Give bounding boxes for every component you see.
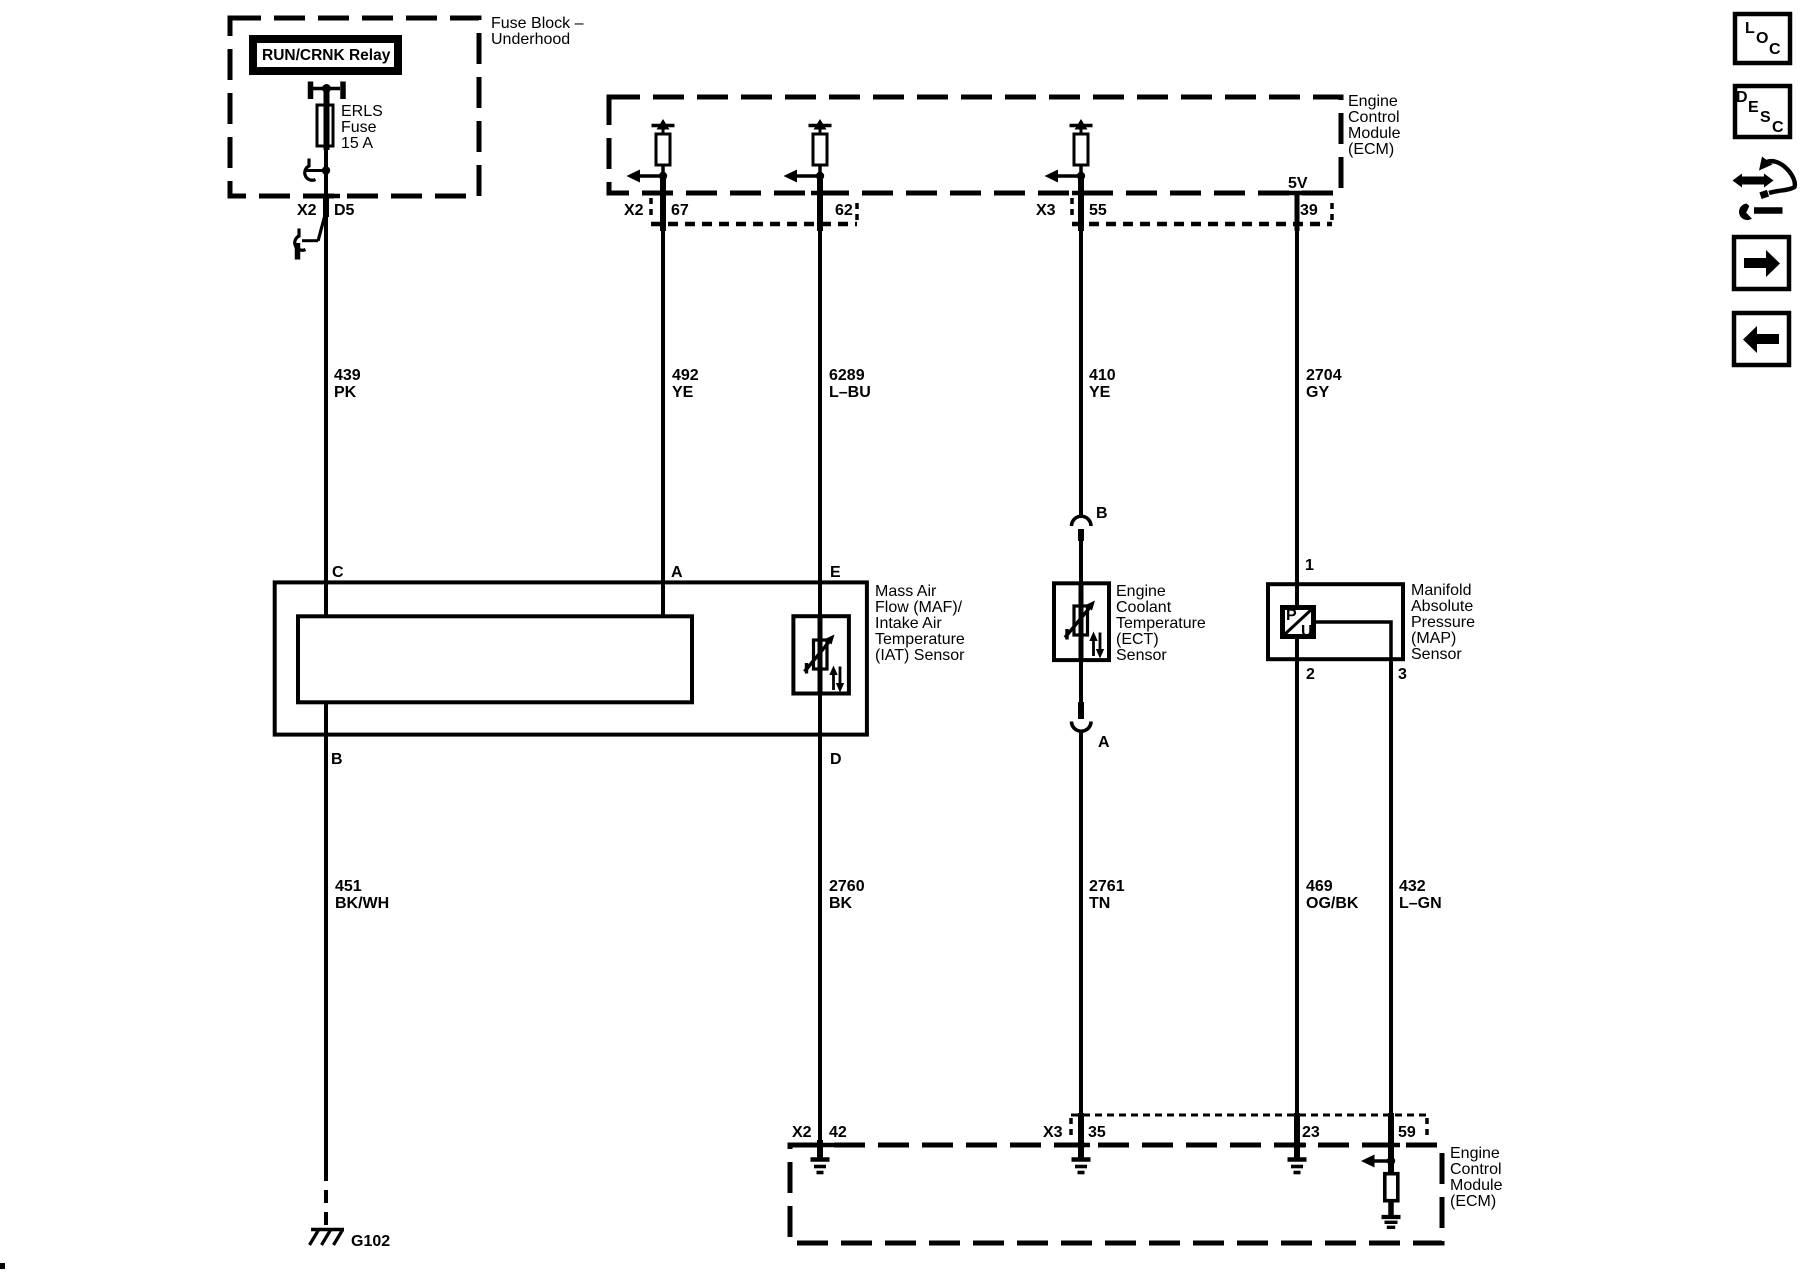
- svg-text:492: 492: [672, 367, 699, 384]
- wire 5V pin 39: [1295, 193, 1300, 231]
- ground at resistor: [1382, 1217, 1401, 1227]
- svg-text:O: O: [1756, 30, 1768, 47]
- svg-text:D: D: [1736, 89, 1748, 106]
- svg-text:62: 62: [835, 202, 853, 219]
- ground at pin 23: [1288, 1160, 1307, 1173]
- connector X3 row (pins 55 39): [1070, 198, 1074, 220]
- ECM driver element pin 67: [627, 119, 675, 231]
- relay contact pins: [311, 82, 344, 100]
- pin 59 wire into ECM: [1388, 1113, 1394, 1174]
- svg-text:55: 55: [1089, 202, 1107, 219]
- svg-text:C: C: [1769, 41, 1781, 58]
- svg-text:OG/BK: OG/BK: [1306, 895, 1359, 912]
- label Engine Coolant Temperature (ECT) Sensor: [1116, 583, 1206, 664]
- wire 439 PK down to MAF: [324, 196, 328, 616]
- icon wiring nav (double arrow, loop, wrench): [1733, 157, 1795, 221]
- svg-text:GY: GY: [1306, 384, 1329, 401]
- svg-text:Coolant: Coolant: [1116, 599, 1172, 616]
- wire below ECT: [1079, 658, 1083, 702]
- relay K: RUN/CRNK Relay: [253, 39, 398, 71]
- svg-text:L–BU: L–BU: [829, 384, 871, 401]
- label Mass Air Flow (MAF)/ Intake Air Temperature (IAT) Sensor: [875, 583, 965, 664]
- svg-text:PK: PK: [334, 384, 357, 401]
- svg-text:59: 59: [1398, 1124, 1416, 1141]
- connector hook below fuse block: [295, 229, 306, 251]
- letter U: [1301, 623, 1313, 640]
- svg-text:X2: X2: [624, 202, 644, 219]
- label G102: [351, 1233, 390, 1250]
- svg-text:2760: 2760: [829, 878, 865, 895]
- label Engine Control Module (ECM) bottom: [1450, 1145, 1503, 1210]
- wire D: IAT to ECM pin 42: [818, 692, 822, 1146]
- svg-text:X2: X2: [792, 1124, 812, 1141]
- svg-text:B: B: [331, 751, 343, 768]
- svg-text:Temperature: Temperature: [875, 631, 965, 648]
- wire 432 L-GN to ECM pin 59: [1389, 657, 1393, 1146]
- wire B: MAF to G102: [324, 701, 328, 1168]
- fuse F: ERLS 15A: [317, 105, 333, 146]
- svg-text:3: 3: [1398, 666, 1407, 683]
- label Manifold Absolute Pressure (MAP) Sensor: [1411, 582, 1475, 663]
- pin 1 label: [1305, 557, 1314, 574]
- svg-text:432: 432: [1399, 878, 1426, 895]
- pin 35 wire into ECM: [1078, 1113, 1084, 1159]
- wire crossing ticks: [318, 193, 1401, 1145]
- 5V supply label: [1288, 175, 1308, 192]
- svg-text:BK: BK: [829, 895, 853, 912]
- svg-text:15 A: 15 A: [341, 135, 373, 152]
- wire into P/U: [1295, 584, 1299, 608]
- svg-text:TN: TN: [1089, 895, 1110, 912]
- svg-text:Flow (MAF)/: Flow (MAF)/: [875, 599, 963, 616]
- chassis ground G102: [310, 1230, 345, 1246]
- icon back arrow button: [1734, 313, 1789, 365]
- svg-text:Temperature: Temperature: [1116, 615, 1206, 632]
- pin 23 wire into ECM: [1294, 1113, 1300, 1159]
- svg-text:E: E: [1748, 99, 1759, 116]
- svg-text:(ECM): (ECM): [1450, 1193, 1496, 1210]
- svg-text:S: S: [1760, 109, 1771, 126]
- P/U diagonal: [1284, 609, 1312, 635]
- IAT thermistor: [805, 616, 845, 694]
- pin labels X2 42 X3 35 23 59: [792, 1124, 1416, 1141]
- svg-text:35: 35: [1088, 1124, 1106, 1141]
- svg-text:C: C: [1772, 119, 1784, 136]
- svg-text:(ECT): (ECT): [1116, 631, 1159, 648]
- internal line to pin 3: [1316, 622, 1391, 659]
- ECT thermistor: [1065, 583, 1104, 660]
- svg-text:23: 23: [1302, 1124, 1320, 1141]
- svg-text:RUN/CRNK Relay: RUN/CRNK Relay: [262, 47, 391, 64]
- svg-text:2: 2: [1306, 666, 1315, 683]
- pin C label: [332, 564, 344, 581]
- label A: [1098, 734, 1110, 751]
- svg-text:Module: Module: [1450, 1177, 1503, 1194]
- MAF inner box: [298, 616, 692, 702]
- svg-text:410: 410: [1089, 367, 1116, 384]
- svg-text:YE: YE: [1089, 384, 1111, 401]
- fuse block - underhood box: [230, 18, 479, 196]
- svg-text:5V: 5V: [1288, 175, 1308, 192]
- svg-text:451: 451: [335, 878, 362, 895]
- svg-text:D: D: [830, 751, 842, 768]
- connector B female half: [1072, 516, 1092, 526]
- svg-text:B: B: [1096, 505, 1108, 522]
- svg-text:Manifold: Manifold: [1411, 582, 1471, 599]
- svg-text:Absolute: Absolute: [1411, 598, 1473, 615]
- svg-text:(ECM): (ECM): [1348, 141, 1394, 158]
- wire dashed to ground: [324, 1168, 328, 1229]
- pin 3 label: [1398, 666, 1407, 683]
- connector A male pin: [1078, 702, 1084, 719]
- label 439 PK: [334, 367, 361, 401]
- wire 492 YE: [661, 228, 665, 616]
- MAP P/U transducer square: [1283, 608, 1314, 637]
- svg-text:(MAP): (MAP): [1411, 630, 1456, 647]
- junction dot: [322, 166, 330, 174]
- svg-text:42: 42: [829, 1124, 847, 1141]
- svg-text:Fuse: Fuse: [341, 119, 377, 136]
- svg-text:L: L: [1745, 20, 1755, 37]
- wire out of P/U to pin 2: [1295, 637, 1299, 659]
- wire stub to hook: [304, 169, 326, 172]
- icon DESC button: [1735, 86, 1790, 137]
- svg-text:P: P: [1286, 607, 1297, 624]
- pin D label: [830, 751, 842, 768]
- ground at pin 42: [811, 1160, 830, 1173]
- pin A label: [671, 564, 683, 581]
- pin 42 wire into ECM: [817, 1140, 823, 1159]
- svg-text:Engine: Engine: [1116, 583, 1166, 600]
- label Fuse Block - Underhood: [491, 15, 584, 48]
- label 451 BK/WH: [335, 878, 389, 912]
- svg-text:39: 39: [1300, 202, 1318, 219]
- svg-text:A: A: [1098, 734, 1110, 751]
- svg-text:Mass Air: Mass Air: [875, 583, 937, 600]
- svg-text:YE: YE: [672, 384, 694, 401]
- ECT sensor box: [1054, 583, 1109, 660]
- wire 410 YE: [1079, 228, 1083, 517]
- svg-text:Sensor: Sensor: [1116, 647, 1167, 664]
- svg-text:Control: Control: [1348, 109, 1400, 126]
- svg-text:Module: Module: [1348, 125, 1401, 142]
- icon forward arrow button: [1734, 237, 1789, 289]
- svg-text:Pressure: Pressure: [1411, 614, 1475, 631]
- connector X2 row (pins 67 62): [649, 198, 653, 220]
- ECM top box: [609, 97, 1341, 193]
- connector X3 row (pins 35 23 59): [1071, 1114, 1427, 1117]
- svg-text:C: C: [332, 564, 344, 581]
- wire to ground: [1388, 1200, 1394, 1216]
- svg-text:6289: 6289: [829, 367, 865, 384]
- svg-text:439: 439: [334, 367, 361, 384]
- svg-text:Sensor: Sensor: [1411, 646, 1462, 663]
- svg-text:469: 469: [1306, 878, 1333, 895]
- svg-text:BK/WH: BK/WH: [335, 895, 389, 912]
- wire 469 OG/BK to ECM pin 23: [1295, 657, 1299, 1146]
- wire 2761 TN to ECM pin 35: [1079, 731, 1083, 1146]
- svg-text:G102: G102: [351, 1233, 390, 1250]
- ECM driver element pin 62: [784, 119, 832, 231]
- pin 2 label: [1306, 666, 1315, 683]
- svg-text:Fuse Block –: Fuse Block –: [491, 15, 584, 32]
- svg-text:(IAT) Sensor: (IAT) Sensor: [875, 647, 965, 664]
- svg-text:E: E: [830, 564, 841, 581]
- ground at pin 35: [1072, 1160, 1091, 1173]
- wire diagonal to connector: [318, 215, 325, 241]
- label B: [1096, 505, 1108, 522]
- svg-text:1: 1: [1305, 557, 1314, 574]
- wire 2704 GY: [1295, 228, 1299, 584]
- svg-text:Engine: Engine: [1348, 93, 1398, 110]
- resistor in ECM: [1385, 1174, 1398, 1201]
- svg-text:D5: D5: [334, 202, 355, 219]
- wire from relay through fuse: [324, 89, 330, 151]
- MAF/IAT sensor outer box: [275, 582, 867, 734]
- wire to ECT: [1079, 541, 1083, 585]
- svg-text:Engine: Engine: [1450, 1145, 1500, 1162]
- junction dot: [322, 84, 331, 93]
- connector A female half: [1072, 722, 1092, 732]
- connector pin bar: [295, 243, 301, 260]
- pin E label: [830, 564, 841, 581]
- MAP sensor box: [1268, 584, 1403, 659]
- label 2760 BK: [829, 878, 865, 912]
- svg-text:ERLS: ERLS: [341, 103, 383, 120]
- svg-text:X3: X3: [1036, 202, 1056, 219]
- svg-text:Intake Air: Intake Air: [875, 615, 942, 632]
- svg-text:67: 67: [671, 202, 689, 219]
- letter P: [1286, 607, 1297, 624]
- svg-text:U: U: [1301, 623, 1313, 640]
- arrow out at pin 59: [1374, 1159, 1391, 1163]
- wire below fuse: [324, 146, 328, 196]
- ECM bottom box: [790, 1145, 1442, 1243]
- page speck bottom left: [0, 1263, 5, 1269]
- wire 6289 L-BU: [818, 228, 822, 616]
- svg-text:A: A: [671, 564, 683, 581]
- ECM driver element pin 55: [1045, 119, 1093, 231]
- connector X2 D5 pass-through: [323, 196, 329, 217]
- label Engine Control Module (ECM): [1348, 93, 1401, 158]
- svg-text:Control: Control: [1450, 1161, 1502, 1178]
- pin B label: [331, 751, 343, 768]
- svg-text:X3: X3: [1043, 1124, 1063, 1141]
- svg-text:2704: 2704: [1306, 367, 1342, 384]
- svg-text:Underhood: Underhood: [491, 31, 570, 48]
- icon LOC button: [1735, 14, 1790, 63]
- IAT sensor symbol box: [793, 616, 849, 693]
- svg-text:2761: 2761: [1089, 878, 1125, 895]
- connector hook in fuse block: [305, 159, 316, 181]
- connector B male pin: [1078, 529, 1084, 541]
- svg-text:X2: X2: [297, 202, 317, 219]
- svg-text:L–GN: L–GN: [1399, 895, 1442, 912]
